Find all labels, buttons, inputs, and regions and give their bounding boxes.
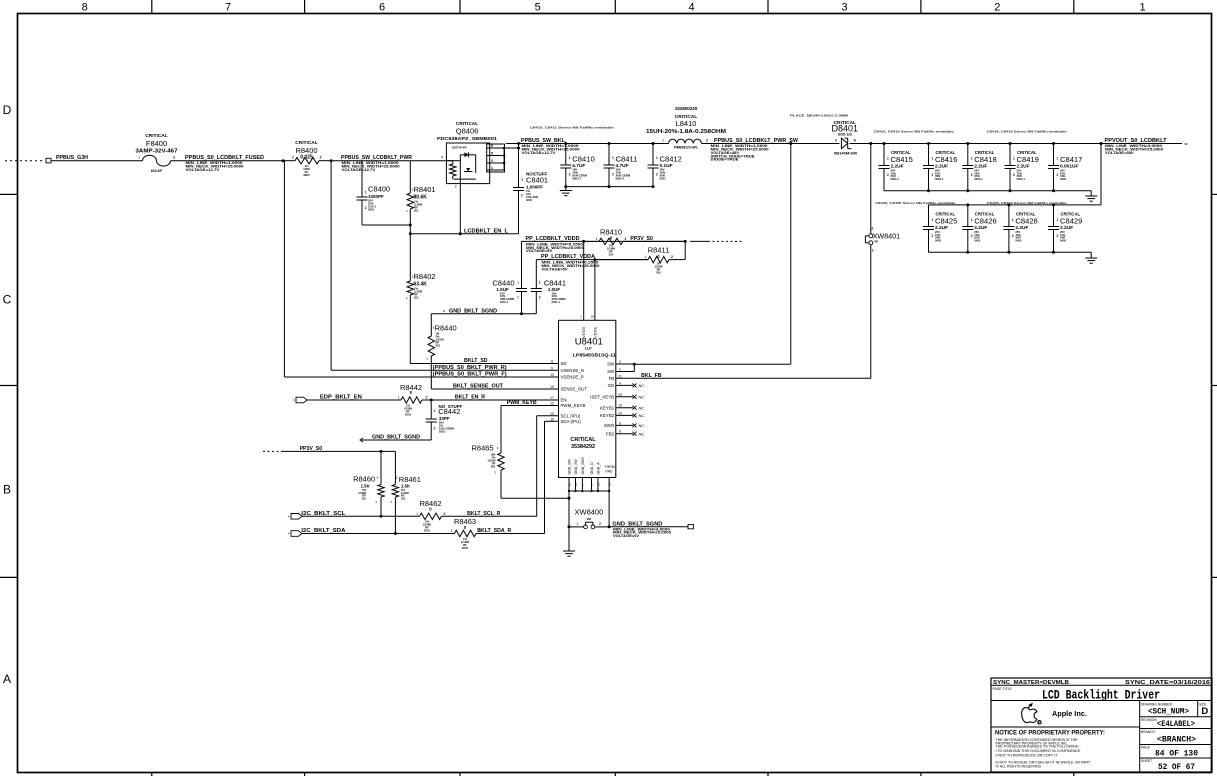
svg-text:VSENSE_N: VSENSE_N <box>561 368 584 373</box>
svg-text:C8416: C8416 <box>935 155 957 164</box>
svg-text:B: B <box>3 482 11 496</box>
svg-text:0402: 0402 <box>935 238 941 242</box>
svg-text:GD: GD <box>608 383 615 388</box>
svg-text:NC: NC <box>639 405 645 410</box>
svg-text:PWM_KEYB: PWM_KEYB <box>507 400 537 406</box>
svg-text:LLP: LLP <box>585 347 592 351</box>
svg-text:0603-1: 0603-1 <box>935 177 944 181</box>
svg-text:5: 5 <box>535 2 541 14</box>
svg-text:C8410: C8410 <box>572 155 594 164</box>
svg-text:D: D <box>3 103 12 117</box>
svg-text:84 OF 130: 84 OF 130 <box>1155 749 1198 758</box>
svg-text:PP3V_S0: PP3V_S0 <box>300 446 323 452</box>
svg-text:2: 2 <box>656 173 658 177</box>
svg-text:20: 20 <box>618 393 622 397</box>
svg-text:C8415, C8416 Stress NB Fail/No: C8415, C8416 Stress NB Fail/No emittable <box>874 129 954 133</box>
svg-text:DIODE=TRUE: DIODE=TRUE <box>711 158 740 162</box>
svg-text:1.0UF: 1.0UF <box>496 287 509 292</box>
svg-text:201: 201 <box>656 271 661 275</box>
svg-text:2: 2 <box>173 156 175 160</box>
svg-text:19: 19 <box>550 385 554 389</box>
svg-text:PPBUS_S0_LCDBKLT_PWR_SW: PPBUS_S0_LCDBKLT_PWR_SW <box>714 138 798 144</box>
svg-text:Apple Inc.: Apple Inc. <box>1052 709 1087 718</box>
svg-text:8: 8 <box>619 430 621 434</box>
svg-text:C8425: C8425 <box>935 217 957 226</box>
svg-text:1: 1 <box>491 166 493 170</box>
svg-text:1: 1 <box>416 512 418 516</box>
svg-text:1: 1 <box>1057 157 1059 161</box>
svg-text:BKLT_SD: BKLT_SD <box>464 358 488 364</box>
svg-text:1: 1 <box>1012 218 1014 222</box>
svg-text:PPBUS_G3H: PPBUS_G3H <box>56 155 88 161</box>
svg-text:12: 12 <box>550 402 554 406</box>
svg-text:2: 2 <box>1013 173 1015 177</box>
svg-text:2: 2 <box>521 194 523 198</box>
svg-text:2: 2 <box>971 234 973 238</box>
svg-text:IV ALL RIGHTS RESERVED: IV ALL RIGHTS RESERVED <box>996 765 1042 769</box>
svg-text:16: 16 <box>550 417 554 421</box>
svg-text:1: 1 <box>596 237 598 241</box>
svg-text:C8400: C8400 <box>368 185 390 194</box>
svg-text:VDDD: VDDD <box>581 327 586 338</box>
svg-text:R8465: R8465 <box>472 444 494 453</box>
svg-text:1: 1 <box>872 249 874 253</box>
svg-text:25: 25 <box>574 482 578 486</box>
svg-text:2: 2 <box>932 173 934 177</box>
svg-text:2: 2 <box>365 206 367 210</box>
svg-text:0402: 0402 <box>1015 238 1021 242</box>
svg-text:SOD-123: SOD-123 <box>838 133 852 137</box>
svg-text:SDA (IPU): SDA (IPU) <box>561 419 582 424</box>
svg-text:XB140M-600: XB140M-600 <box>834 150 858 155</box>
svg-text:PPVOUT_S0_LCDBKLT: PPVOUT_S0_LCDBKLT <box>1105 138 1168 144</box>
svg-text:0201: 0201 <box>368 208 375 212</box>
svg-text:8: 8 <box>82 2 88 14</box>
svg-text:4R: 4R <box>874 240 878 244</box>
svg-text:1: 1 <box>577 522 579 526</box>
svg-text:VOLTAGE=48V: VOLTAGE=48V <box>1105 151 1134 155</box>
svg-text:FB2: FB2 <box>606 431 615 436</box>
svg-text:=: = <box>443 309 445 313</box>
svg-text:C8442: C8442 <box>438 407 460 416</box>
svg-text:C8415: C8415 <box>891 155 913 164</box>
svg-text:2: 2 <box>1057 234 1059 238</box>
svg-text:SHEET: SHEET <box>1141 759 1152 763</box>
svg-text:SW: SW <box>607 362 615 367</box>
svg-text:FDC638APZ_SBMB001: FDC638APZ_SBMB001 <box>437 136 498 141</box>
svg-text:0201: 0201 <box>424 529 431 533</box>
svg-text:C8419: C8419 <box>1017 155 1039 164</box>
svg-text:1: 1 <box>517 281 519 285</box>
svg-text:PAGE TITLE: PAGE TITLE <box>993 687 1013 691</box>
svg-text:1: 1 <box>645 255 647 259</box>
svg-text:GND_BKLT_SGND: GND_BKLT_SGND <box>372 435 420 441</box>
svg-text:KEYB2: KEYB2 <box>600 413 615 418</box>
svg-text:PP3V_S0: PP3V_S0 <box>630 236 653 242</box>
svg-text:2: 2 <box>612 173 614 177</box>
svg-text:1: 1 <box>1140 2 1146 14</box>
svg-text:A: A <box>3 672 11 686</box>
svg-text:1: 1 <box>569 156 571 160</box>
svg-text:GND_SW: GND_SW <box>568 458 572 474</box>
svg-text:LCD Backlight Driver: LCD Backlight Driver <box>1042 688 1160 703</box>
svg-text:24: 24 <box>608 482 612 486</box>
svg-text:GND_D: GND_D <box>590 462 594 475</box>
svg-text:18: 18 <box>591 315 595 319</box>
svg-text:1: 1 <box>521 178 523 182</box>
svg-text:PPBUS_SW_BKL: PPBUS_SW_BKL <box>521 138 566 144</box>
svg-text:201: 201 <box>414 296 419 300</box>
svg-text:PAD: PAD <box>606 470 613 474</box>
svg-text:ISET_KEYB: ISET_KEYB <box>590 395 614 400</box>
svg-text:NC: NC <box>639 394 645 399</box>
svg-text:D: D <box>1201 706 1208 717</box>
svg-text:0201: 0201 <box>405 413 412 417</box>
svg-text:I TO MAINTAIN THIS DOCUMENT IN: I TO MAINTAIN THIS DOCUMENT IN CONFIDENC… <box>996 749 1082 753</box>
svg-text:5: 5 <box>491 152 493 156</box>
svg-text:<SCH_NUM>: <SCH_NUM> <box>1148 707 1189 716</box>
svg-text:1: 1 <box>619 368 621 372</box>
svg-text:DRAWING NUMBER: DRAWING NUMBER <box>1141 702 1173 706</box>
svg-text:SYNC_DATE=03/16/2016: SYNC_DATE=03/16/2016 <box>1125 680 1210 686</box>
svg-text:SWO: SWO <box>604 423 615 428</box>
svg-text:0603-1: 0603-1 <box>974 177 983 181</box>
svg-text:VOLTAGE=12.7V: VOLTAGE=12.7V <box>522 151 556 155</box>
svg-text:1: 1 <box>539 281 541 285</box>
svg-text:PPBUS_S0_LCDBKLT_FUSED: PPBUS_S0_LCDBKLT_FUSED <box>185 155 264 161</box>
svg-text:1: 1 <box>292 156 294 160</box>
svg-text:C8428: C8428 <box>1015 217 1037 226</box>
svg-text:1: 1 <box>971 157 973 161</box>
svg-text:L8410: L8410 <box>676 119 697 128</box>
svg-text:R8460: R8460 <box>353 475 375 484</box>
svg-text:THE POSSESSOR AGREES TO THE FO: THE POSSESSOR AGREES TO THE FOLLOWING: <box>996 744 1080 748</box>
svg-text:1: 1 <box>656 156 658 160</box>
svg-text:2: 2 <box>932 234 934 238</box>
svg-text:2: 2 <box>625 237 627 241</box>
svg-text:0201: 0201 <box>462 546 469 550</box>
svg-text:52 OF 67: 52 OF 67 <box>1158 763 1195 772</box>
svg-text:C8426: C8426 <box>974 217 996 226</box>
svg-text:VSENSE_P: VSENSE_P <box>561 375 584 380</box>
svg-text:GND_BKLT_SGND: GND_BKLT_SGND <box>449 308 497 314</box>
svg-text:LP8545SB1SQ-11: LP8545SB1SQ-11 <box>573 352 617 357</box>
svg-text:BKLT_SDA_R: BKLT_SDA_R <box>477 528 511 534</box>
svg-text:3: 3 <box>841 2 847 14</box>
svg-text:1: 1 <box>365 191 367 195</box>
svg-text:2M: 2M <box>587 517 592 521</box>
svg-text:15: 15 <box>550 412 554 416</box>
svg-text:SENSE_OUT: SENSE_OUT <box>561 387 588 392</box>
svg-text:F8400: F8400 <box>146 139 167 148</box>
svg-text:C8412: C8412 <box>660 155 682 164</box>
svg-text:13: 13 <box>618 404 622 408</box>
svg-text:PP_LCDBKLT_VDDD: PP_LCDBKLT_VDDD <box>526 236 580 242</box>
svg-text:6: 6 <box>379 2 385 14</box>
svg-text:23: 23 <box>596 482 600 486</box>
svg-text:C8411: C8411 <box>616 155 638 164</box>
svg-text:PLACE_NEAR=L8410 2.5MM: PLACE_NEAR=L8410 2.5MM <box>790 114 849 118</box>
svg-text:NC: NC <box>639 423 645 428</box>
svg-text:1: 1 <box>932 157 934 161</box>
svg-text:1.5K: 1.5K <box>401 484 411 489</box>
svg-text:VOLTAGE=5V: VOLTAGE=5V <box>526 249 552 253</box>
svg-text:BRANCH: BRANCH <box>1141 730 1156 734</box>
svg-text:(PPBUS_S0_BKLT_PWR_F): (PPBUS_S0_BKLT_PWR_F) <box>433 372 507 378</box>
svg-text:6: 6 <box>491 144 493 148</box>
svg-text:VDDA: VDDA <box>592 327 597 338</box>
svg-text:14: 14 <box>618 411 622 415</box>
svg-text:2: 2 <box>434 427 436 431</box>
svg-text:R8402: R8402 <box>414 272 436 281</box>
svg-text:603-KF: 603-KF <box>151 169 162 173</box>
svg-text:7: 7 <box>225 2 231 14</box>
svg-text:XW8400: XW8400 <box>575 508 604 517</box>
svg-text:2: 2 <box>599 522 601 526</box>
svg-text:PIMB0612X-SPL: PIMB0612X-SPL <box>674 145 698 149</box>
svg-text:II NOT TO REPRODUCE OR COPY IT: II NOT TO REPRODUCE OR COPY IT <box>996 754 1059 758</box>
svg-text:1: 1 <box>451 529 453 533</box>
svg-text:0201: 0201 <box>526 198 533 202</box>
svg-text:GND_A: GND_A <box>596 462 600 475</box>
svg-text:C8418: C8418 <box>974 155 996 164</box>
svg-text:C8417: C8417 <box>1060 155 1082 164</box>
svg-text:C8429: C8429 <box>1060 217 1082 226</box>
svg-text:0603-1: 0603-1 <box>572 176 581 180</box>
svg-text:2: 2 <box>619 360 621 364</box>
svg-text:<BRANCH>: <BRANCH> <box>1157 735 1196 744</box>
svg-text:C8401: C8401 <box>526 176 548 185</box>
svg-text:PP_LCDBKLT_VDDA: PP_LCDBKLT_VDDA <box>541 254 595 260</box>
svg-text:1: 1 <box>612 156 614 160</box>
svg-text:NC: NC <box>639 383 645 388</box>
svg-text:SD: SD <box>561 361 567 366</box>
svg-text:3: 3 <box>455 185 457 189</box>
svg-text:2: 2 <box>994 2 1000 14</box>
svg-text:REVISION: REVISION <box>1141 718 1157 722</box>
svg-text:2: 2 <box>491 159 493 163</box>
svg-text:EN: EN <box>561 398 567 403</box>
svg-text:152800220: 152800220 <box>675 106 698 111</box>
svg-text:LCDBKLT_EN_L: LCDBKLT_EN_L <box>464 228 509 234</box>
svg-text:0603-1: 0603-1 <box>891 177 900 181</box>
svg-text:1: 1 <box>1057 218 1059 222</box>
svg-text:201: 201 <box>362 497 367 501</box>
svg-text:4: 4 <box>441 156 443 160</box>
svg-text:0402: 0402 <box>1060 177 1066 181</box>
svg-text:R: R <box>1039 722 1041 725</box>
svg-text:VOLTAGE=5V: VOLTAGE=5V <box>542 267 568 271</box>
svg-text:KEYB1: KEYB1 <box>600 405 615 410</box>
svg-text:201: 201 <box>401 497 406 501</box>
svg-text:201: 201 <box>414 209 419 213</box>
svg-text:PWM_KEYB: PWM_KEYB <box>561 403 586 408</box>
svg-text:BKLT_EN_R: BKLT_EN_R <box>455 395 485 401</box>
svg-text:C8410, C8411 Stress NB Fail/No: C8410, C8411 Stress NB Fail/No emittable <box>530 126 614 130</box>
svg-text:0201-1: 0201-1 <box>500 300 509 304</box>
svg-text:1: 1 <box>932 218 934 222</box>
svg-text:2: 2 <box>320 156 322 160</box>
svg-text:2: 2 <box>887 173 889 177</box>
svg-text:PAGE: PAGE <box>1141 746 1151 750</box>
svg-text:GND_SW2: GND_SW2 <box>581 457 585 474</box>
svg-text:2: 2 <box>971 173 973 177</box>
svg-text:15UH-20%-1.8A-0.258OHM: 15UH-20%-1.8A-0.258OHM <box>646 129 726 135</box>
svg-text:26: 26 <box>568 482 572 486</box>
svg-text:1: 1 <box>887 157 889 161</box>
svg-text:1: 1 <box>434 409 436 413</box>
svg-text:1: 1 <box>1013 157 1015 161</box>
svg-text:35384292: 35384292 <box>571 444 595 450</box>
svg-text:2: 2 <box>426 396 428 400</box>
svg-text:2: 2 <box>671 255 673 259</box>
svg-text:1.0UF: 1.0UF <box>548 287 561 292</box>
svg-text:2: 2 <box>569 173 571 177</box>
svg-text:1: 1 <box>662 139 664 143</box>
svg-text:9: 9 <box>551 366 553 370</box>
svg-text:11: 11 <box>550 360 554 364</box>
svg-text:SSOT6-KF: SSOT6-KF <box>452 146 467 150</box>
svg-text:0805: 0805 <box>303 173 310 177</box>
svg-text:SYNC_MASTER=DEVMLB: SYNC_MASTER=DEVMLB <box>993 680 1069 686</box>
svg-text:4: 4 <box>689 2 695 14</box>
svg-text:0201-1: 0201-1 <box>552 300 561 304</box>
svg-text:BKLT_SCL_R: BKLT_SCL_R <box>467 511 501 517</box>
svg-text:VOLTAGE=12.7V: VOLTAGE=12.7V <box>186 168 220 172</box>
svg-text:10: 10 <box>550 373 554 377</box>
svg-text:BKL_FB: BKL_FB <box>641 373 662 379</box>
svg-text:C8418, C8419 Stress NB Fail/No: C8418, C8419 Stress NB Fail/No emittable <box>987 129 1067 133</box>
svg-text:4: 4 <box>619 381 621 385</box>
svg-text:2: 2 <box>1012 234 1014 238</box>
svg-text:0201: 0201 <box>439 429 446 433</box>
svg-text:FB: FB <box>609 376 615 381</box>
svg-text:21: 21 <box>618 374 622 378</box>
svg-text:Q8406: Q8406 <box>456 127 479 136</box>
svg-text:GND_SW: GND_SW <box>574 458 578 474</box>
svg-text:0402: 0402 <box>1060 238 1066 242</box>
svg-text:BKLT_SENSE_OUT: BKLT_SENSE_OUT <box>453 384 504 390</box>
svg-text:VOLTAGE=0V: VOLTAGE=0V <box>613 534 639 538</box>
svg-text:1.5K: 1.5K <box>361 484 371 489</box>
svg-text:0603-1: 0603-1 <box>1017 177 1026 181</box>
svg-text:2: 2 <box>871 227 873 231</box>
svg-text:6: 6 <box>619 421 621 425</box>
svg-text:THRM: THRM <box>605 465 615 469</box>
svg-text:0402: 0402 <box>974 238 980 242</box>
svg-text:2: 2 <box>706 139 708 143</box>
svg-text:201: 201 <box>491 465 496 469</box>
svg-text:3AMP-32V-467: 3AMP-32V-467 <box>136 149 178 155</box>
svg-text:201: 201 <box>436 344 441 348</box>
svg-text:1: 1 <box>138 156 140 160</box>
svg-text:201: 201 <box>609 253 614 257</box>
svg-text:CRITICAL: CRITICAL <box>570 437 596 443</box>
svg-text:C: C <box>3 293 12 307</box>
svg-text:2: 2 <box>1057 173 1059 177</box>
svg-text:<E4LABEL>: <E4LABEL> <box>1157 720 1195 729</box>
svg-text:VOLTAGE=12.7V: VOLTAGE=12.7V <box>342 168 376 172</box>
svg-text:R8401: R8401 <box>414 185 436 194</box>
svg-text:1: 1 <box>971 218 973 222</box>
svg-text:0.025: 0.025 <box>300 155 313 161</box>
svg-text:NC: NC <box>639 413 645 418</box>
svg-text:SCL (IPU): SCL (IPU) <box>561 414 581 419</box>
svg-text:NC: NC <box>639 431 645 436</box>
svg-text:2: 2 <box>539 296 541 300</box>
svg-text:2: 2 <box>517 296 519 300</box>
svg-text:1: 1 <box>398 396 400 400</box>
svg-text:(PPBUS_S0_BKLT_PWR_R): (PPBUS_S0_BKLT_PWR_R) <box>433 365 507 371</box>
svg-text:EDP_BKLT_EN: EDP_BKLT_EN <box>320 395 362 401</box>
svg-text:0201: 0201 <box>660 176 667 180</box>
svg-text:PPBUS_SW_LCDBKLT_PWR: PPBUS_SW_LCDBKLT_PWR <box>341 155 412 161</box>
svg-text:2: 2 <box>444 512 446 516</box>
svg-text:17: 17 <box>550 396 554 400</box>
svg-text:SW: SW <box>607 369 615 374</box>
svg-text:NOTICE OF PROPRIETARY PROPERTY: NOTICE OF PROPRIETARY PROPERTY: <box>995 731 1105 737</box>
svg-text:0603-1: 0603-1 <box>616 176 625 180</box>
